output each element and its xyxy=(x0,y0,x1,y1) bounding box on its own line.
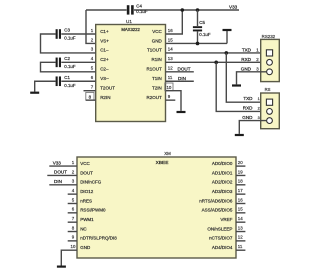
svg-text:C1–: C1– xyxy=(100,48,109,53)
svg-text:RXD: RXD xyxy=(241,57,251,62)
IC U1 MAX3222 body xyxy=(96,25,166,122)
svg-text:13: 13 xyxy=(168,56,173,61)
junction RXD branch xyxy=(214,61,218,65)
svg-text:17: 17 xyxy=(238,188,243,193)
svg-text:R2IN: R2IN xyxy=(100,95,110,100)
net label V33 at XM pin1 xyxy=(49,160,77,166)
svg-text:nCTS/DIO7: nCTS/DIO7 xyxy=(209,236,233,241)
svg-text:C3: C3 xyxy=(64,28,70,33)
svg-text:0.1uF: 0.1uF xyxy=(64,83,76,88)
junction GND/C5 xyxy=(196,42,200,46)
svg-text:11: 11 xyxy=(238,244,243,249)
svg-text:GND: GND xyxy=(80,245,91,250)
svg-text:RXD: RXD xyxy=(243,105,253,110)
wire U1 pin6 to C1 xyxy=(61,80,95,82)
U1 pin 9 stub xyxy=(166,99,176,101)
ground below U1 pin10 xyxy=(177,111,186,113)
junction on rail at C5 branch xyxy=(196,8,200,12)
net label DIN at XM pin3 xyxy=(49,179,77,185)
wire RXD branch down to RS connector xyxy=(216,62,266,111)
XM pin 17 stub xyxy=(236,193,245,195)
U1 pin 8 stub xyxy=(86,99,96,101)
svg-text:T1OUT: T1OUT xyxy=(147,48,162,53)
svg-text:nDTR/SLPRQ/DI8: nDTR/SLPRQ/DI8 xyxy=(80,236,117,241)
XM pin 9 stub xyxy=(68,240,77,242)
ground below RS xyxy=(235,134,244,136)
wire C1 left to ground xyxy=(35,81,56,91)
ground below RS232 xyxy=(232,84,241,86)
svg-text:DOUT: DOUT xyxy=(54,170,67,175)
junction TXD branch xyxy=(225,51,229,55)
svg-text:AD3/DIO3: AD3/DIO3 xyxy=(212,189,233,194)
RS pin 2 pad xyxy=(267,109,273,115)
svg-text:19: 19 xyxy=(238,169,243,174)
wire XM pin10 GND to ground xyxy=(61,250,77,265)
svg-text:18: 18 xyxy=(238,179,243,184)
svg-text:C2+: C2+ xyxy=(100,57,109,62)
XM pin 18 stub xyxy=(236,184,245,186)
svg-text:16: 16 xyxy=(168,28,173,33)
svg-text:MAX3222: MAX3222 xyxy=(121,27,140,32)
XM pin 12 stub xyxy=(236,240,245,242)
svg-text:TXD: TXD xyxy=(243,96,253,101)
svg-text:VREF: VREF xyxy=(220,217,232,222)
svg-text:V33: V33 xyxy=(229,4,238,9)
svg-text:20: 20 xyxy=(238,160,243,165)
svg-text:RS232: RS232 xyxy=(262,34,276,39)
svg-text:15: 15 xyxy=(168,37,173,42)
wire U1 pin4 to C2 xyxy=(61,61,95,63)
wire C5 bottom to GND net xyxy=(197,31,199,43)
svg-text:13: 13 xyxy=(238,225,243,230)
svg-text:AD0/DIO0: AD0/DIO0 xyxy=(212,161,233,166)
net label DOUT at XM pin2 xyxy=(47,170,77,176)
svg-text:ASS/AD5/DIO5: ASS/AD5/DIO5 xyxy=(202,208,233,213)
svg-text:15: 15 xyxy=(238,207,243,212)
svg-text:R2OUT: R2OUT xyxy=(147,95,163,100)
svg-text:AD1/DIO1: AD1/DIO1 xyxy=(212,170,233,175)
svg-text:VS–: VS– xyxy=(100,76,109,81)
wire C3 left to U1 pin3 xyxy=(41,34,96,53)
svg-text:VCC: VCC xyxy=(152,29,162,34)
capacitor C4 xyxy=(127,4,148,15)
svg-text:U1: U1 xyxy=(126,19,132,24)
connector RS232 body xyxy=(261,39,280,81)
svg-text:AD4/DIO4: AD4/DIO4 xyxy=(212,245,233,250)
wire R1IN net to RS232 RXD xyxy=(166,61,267,63)
ground (inverted) on GND net xyxy=(223,29,232,44)
svg-text:VS+: VS+ xyxy=(100,38,109,43)
RS232 pin 1 pad xyxy=(266,50,272,56)
svg-text:14: 14 xyxy=(238,216,243,221)
wire VCC pin16 to rail xyxy=(166,10,183,34)
svg-text:V33: V33 xyxy=(53,160,62,165)
net label DIN at U1 pin11 xyxy=(166,76,194,81)
svg-text:0.1uF: 0.1uF xyxy=(199,32,211,37)
U1 pin 7 stub xyxy=(84,90,96,92)
svg-text:T2OUT: T2OUT xyxy=(100,86,115,91)
net label DOUT at U1 pin12 xyxy=(166,66,194,71)
svg-text:12: 12 xyxy=(168,66,173,71)
ground below XM xyxy=(57,266,66,268)
IC XM XBEE body xyxy=(77,157,236,258)
svg-text:GND: GND xyxy=(242,115,253,120)
RS pin 1 pad xyxy=(266,99,272,105)
svg-text:0.1uF: 0.1uF xyxy=(64,64,76,69)
svg-text:DIN/nCFG: DIN/nCFG xyxy=(80,180,102,185)
XM pin 8 stub xyxy=(68,231,77,233)
svg-text:R1IN: R1IN xyxy=(152,57,162,62)
wire U1 pin10 T2IN to ground xyxy=(166,91,182,111)
XM pin 6 stub xyxy=(68,212,77,214)
svg-text:10: 10 xyxy=(71,244,76,249)
svg-text:R1OUT: R1OUT xyxy=(147,67,163,72)
svg-text:nRES: nRES xyxy=(80,198,92,203)
svg-text:DIO12: DIO12 xyxy=(80,189,94,194)
svg-text:PWM1: PWM1 xyxy=(80,217,94,222)
svg-text:TXD: TXD xyxy=(242,48,252,53)
wire RS232 GND to ground xyxy=(237,72,267,85)
svg-text:DIN: DIN xyxy=(178,76,186,81)
svg-text:3: 3 xyxy=(258,116,260,120)
svg-text:C1+: C1+ xyxy=(100,29,109,34)
connector RS body xyxy=(261,93,280,129)
wire RS GND to ground xyxy=(239,121,266,134)
RS pin 3 pad xyxy=(267,118,273,124)
XM pin 11 stub xyxy=(236,249,245,251)
junction on rail at VCC branch xyxy=(181,8,185,12)
ground below C1 xyxy=(30,92,39,94)
svg-text:nRTS/AD6/DIO6: nRTS/AD6/DIO6 xyxy=(199,198,233,203)
XM pin 15 stub xyxy=(236,212,245,214)
wire V33 rail right segment xyxy=(134,9,239,11)
svg-text:ON/nSLEEP: ON/nSLEEP xyxy=(207,226,232,231)
svg-text:C5: C5 xyxy=(199,20,205,25)
svg-text:GND: GND xyxy=(241,66,252,71)
svg-text:XM: XM xyxy=(164,151,171,156)
RS232 pin 3 pad xyxy=(267,69,273,75)
XM pin 16 stub xyxy=(236,202,245,204)
U1 pin 8 boxed number xyxy=(86,92,94,100)
svg-text:RS: RS xyxy=(265,87,271,92)
svg-text:10: 10 xyxy=(166,85,171,90)
svg-text:AD2/DIO2: AD2/DIO2 xyxy=(212,180,233,185)
capacitor C5 xyxy=(193,20,211,37)
wire V33 rail left segment xyxy=(86,9,127,11)
wire GND pin15 xyxy=(166,42,228,44)
XM pin 19 stub xyxy=(236,174,245,176)
svg-text:XBEE: XBEE xyxy=(156,160,169,166)
wire C5 top xyxy=(197,10,199,26)
svg-text:DOUT: DOUT xyxy=(80,170,93,175)
RS232 pin 2 pad xyxy=(267,59,273,65)
svg-text:2: 2 xyxy=(258,106,260,110)
capacitor C3 xyxy=(56,28,76,41)
svg-text:11: 11 xyxy=(168,75,173,80)
wire VS+ vertical from rail to pin2 xyxy=(86,10,96,43)
svg-text:DOUT: DOUT xyxy=(178,66,191,71)
capacitor C1 xyxy=(56,75,76,88)
svg-text:T1IN: T1IN xyxy=(152,76,162,81)
XM pin 13 stub xyxy=(236,231,245,233)
svg-text:C1: C1 xyxy=(64,75,70,80)
wire C2 left to U1 pin5 xyxy=(41,62,96,71)
XM pin 14 stub xyxy=(236,221,245,223)
svg-text:14: 14 xyxy=(168,47,173,52)
svg-text:C2: C2 xyxy=(64,56,70,61)
svg-text:0.1uF: 0.1uF xyxy=(136,9,148,14)
wire TXD branch down to RS connector xyxy=(226,53,266,102)
svg-text:VCC: VCC xyxy=(80,161,90,166)
XM pin 4 stub xyxy=(68,193,77,195)
svg-text:T2IN: T2IN xyxy=(152,86,162,91)
svg-text:1: 1 xyxy=(258,97,260,101)
XM pin 7 stub xyxy=(68,221,77,223)
svg-text:12: 12 xyxy=(238,235,243,240)
XM pin 5 stub xyxy=(68,202,77,204)
svg-text:GND: GND xyxy=(152,38,163,43)
svg-text:C2–: C2– xyxy=(100,67,109,72)
svg-text:16: 16 xyxy=(238,197,243,202)
U1 pin 10 boxed number xyxy=(165,83,173,91)
svg-text:NC: NC xyxy=(80,226,87,231)
XM pin 20 stub xyxy=(236,165,245,167)
svg-text:0.1uF: 0.1uF xyxy=(64,36,76,41)
wire U1 pin1 to C3 xyxy=(61,33,95,35)
wire T1OUT net to RS232 TXD xyxy=(166,52,267,54)
capacitor C2 xyxy=(56,56,76,69)
svg-text:RSSI/PWM0: RSSI/PWM0 xyxy=(80,208,106,213)
svg-text:DIN: DIN xyxy=(54,179,62,184)
